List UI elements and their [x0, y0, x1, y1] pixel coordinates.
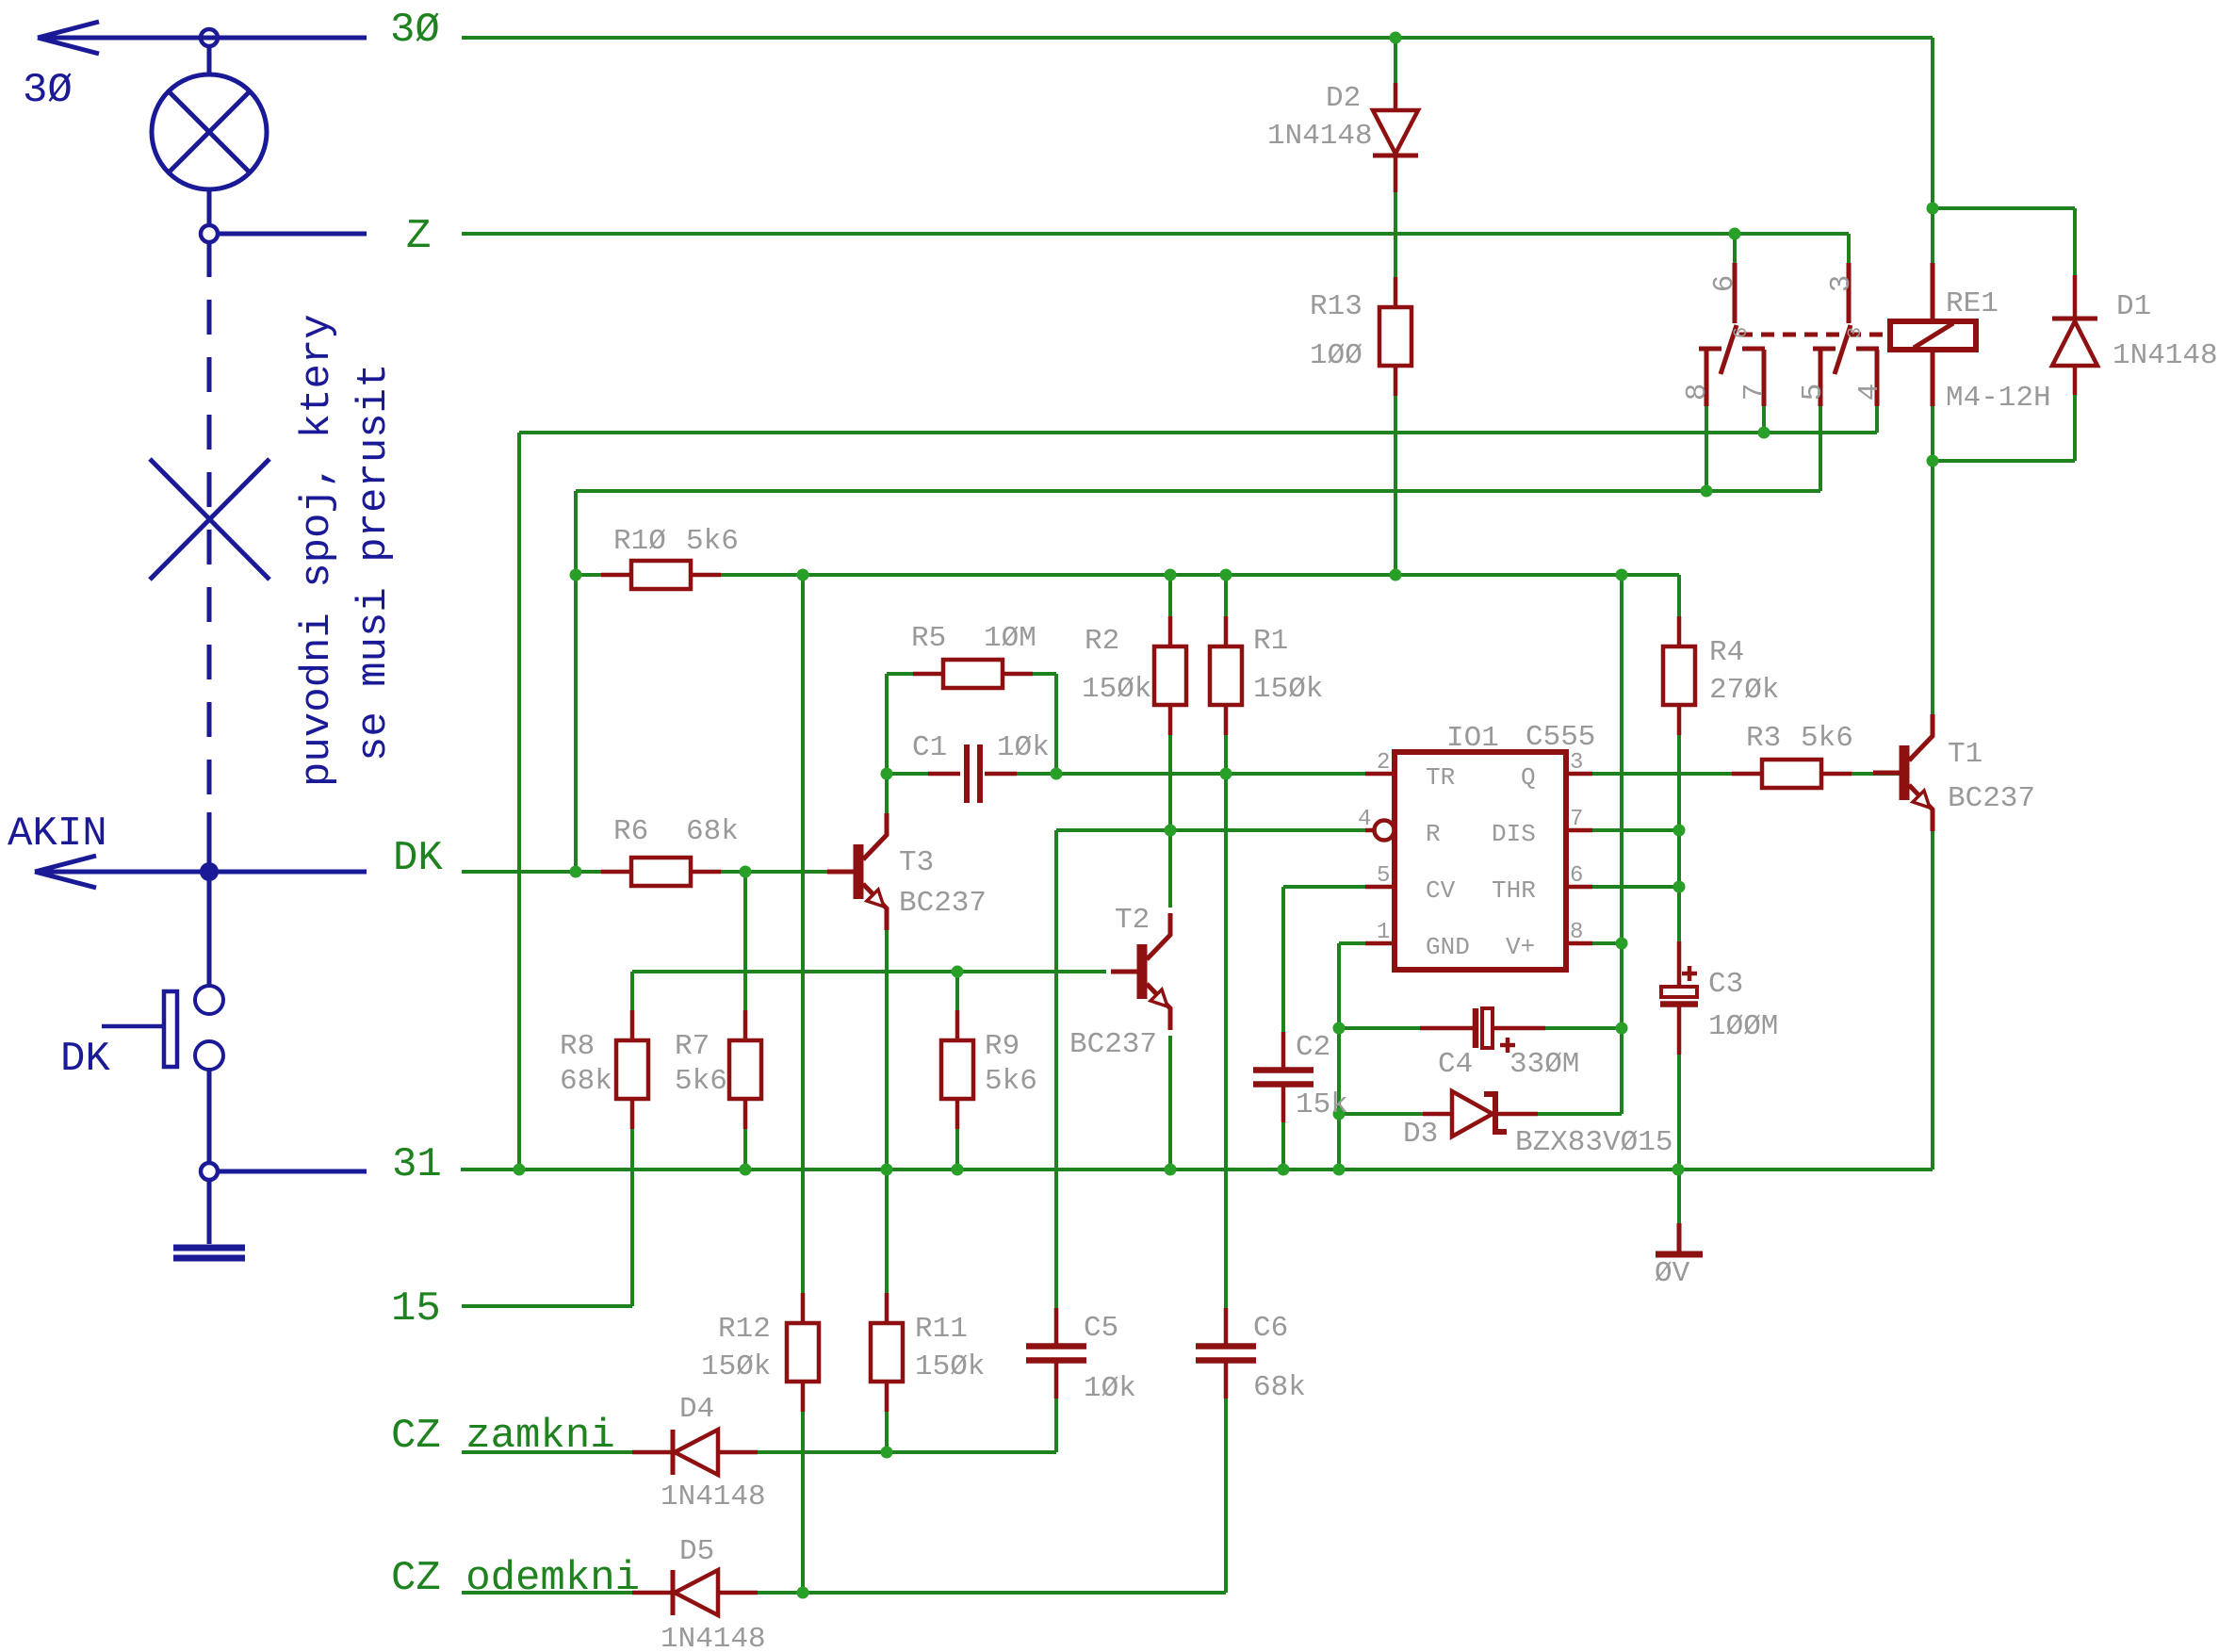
svg-text:1N4148: 1N4148: [1267, 120, 1373, 153]
svg-text:puvodni spoj, ktery: puvodni spoj, ktery: [294, 314, 341, 787]
wire relay pin4 drop: [1875, 401, 1879, 433]
svg-text:3: 3: [1570, 750, 1583, 776]
wire navy down to ground: [207, 1180, 212, 1244]
switch DK (push button): [102, 986, 223, 1070]
resistor R11 150k: [871, 1293, 985, 1412]
wire R1 branch vertical down to C6: [1224, 575, 1228, 1593]
svg-text:AKIN: AKIN: [8, 810, 107, 858]
lamp (circle with X): [152, 74, 267, 189]
svg-text:1Øk: 1Øk: [997, 731, 1050, 764]
wire net 30 top horizontal: [462, 36, 1933, 40]
resistor R5 10M: [911, 622, 1036, 688]
junction TR / R1: [1220, 768, 1232, 780]
svg-text:3: 3: [1845, 327, 1867, 338]
wire V+ row horizontal pin8: [1592, 941, 1622, 945]
wire R4 branch vertical x1782: [1677, 575, 1681, 1223]
svg-text:DIS: DIS: [1492, 820, 1536, 848]
wire net Z horizontal: [462, 232, 1849, 236]
svg-text:T3: T3: [899, 846, 934, 879]
wire D3 row horizontal: [1339, 1112, 1622, 1116]
svg-text:DK: DK: [393, 835, 443, 882]
relay contact B (pins 3/5/4): [1813, 263, 1879, 406]
junction pin7 on y459 wire: [1758, 427, 1770, 439]
svg-text:1N4148: 1N4148: [661, 1480, 766, 1513]
wire net DK horizontal: [462, 870, 829, 874]
wire R5/C1 right vertical: [1054, 674, 1058, 774]
svg-text:R1: R1: [1253, 625, 1288, 658]
svg-text:T1: T1: [1948, 738, 1982, 771]
wire T2 emitter vertical: [1168, 1036, 1172, 1169]
svg-text:3: 3: [1825, 275, 1858, 293]
resistor R4 270k: [1663, 616, 1779, 735]
arrow head 30 (left): [38, 22, 99, 54]
wire navy DK down to switch: [207, 872, 212, 986]
wire net 31 rail horizontal: [461, 1168, 1933, 1171]
junction TR / T3 collector / C1 left: [881, 768, 893, 780]
wire DIS row horizontal: [1592, 828, 1679, 832]
junction rail / R1: [1220, 569, 1232, 581]
junction 31 rail / pins7-4 branch: [514, 1164, 526, 1176]
svg-text:4: 4: [1358, 807, 1371, 832]
transistor T3 BC237: [827, 813, 987, 930]
svg-text:R13: R13: [1310, 290, 1362, 323]
wire D2/R13 vertical to V+ rail: [1394, 192, 1397, 575]
svg-text:7: 7: [1738, 384, 1771, 401]
wire GND row horizontal to pin1: [1339, 941, 1365, 945]
svg-text:C6: C6: [1253, 1312, 1288, 1345]
svg-text:68k: 68k: [686, 815, 739, 848]
junction 31 rail / C2: [1278, 1164, 1290, 1176]
wire net 30 right vertical down to relay coil: [1931, 38, 1934, 208]
svg-text:Q: Q: [1521, 763, 1536, 792]
svg-text:C2: C2: [1296, 1031, 1330, 1064]
diode D5 1N4148 (pointing left): [632, 1535, 766, 1652]
node junction ring 31: [201, 1163, 218, 1180]
junction rail / R2: [1165, 569, 1177, 581]
wire relay pin6 stub from Z: [1733, 234, 1737, 283]
junction DK / pins8-5 branch: [570, 866, 582, 878]
svg-text:R2: R2: [1085, 625, 1119, 658]
svg-text:R3: R3: [1746, 722, 1781, 755]
wire T1 collector vertical from relay: [1931, 461, 1934, 714]
svg-text:R6: R6: [613, 815, 648, 848]
svg-text:R8: R8: [560, 1030, 595, 1063]
svg-text:D2: D2: [1326, 82, 1361, 115]
node junction dot DK (navy): [200, 862, 219, 881]
junction D5 row / R12 bottom: [797, 1587, 809, 1599]
junction rail / V+ branch: [1616, 569, 1628, 581]
junction T2 base / R9 top: [952, 966, 964, 978]
IC pin 8 V+: [1506, 920, 1592, 961]
wire R5 top horizontal: [887, 672, 1056, 676]
junction 31 rail / R7: [740, 1164, 752, 1176]
svg-text:R5: R5: [911, 622, 946, 655]
svg-text:GND: GND: [1426, 933, 1470, 961]
svg-text:6: 6: [1731, 327, 1753, 338]
wire CV row horizontal to pin5: [1283, 885, 1365, 889]
svg-text:C4: C4: [1438, 1048, 1473, 1081]
junction pin8 on y521 wire: [1701, 485, 1713, 498]
capacitor C4 330M (polarized horizontal): [1420, 1005, 1579, 1081]
IC pin 7 DIS: [1492, 807, 1592, 848]
svg-text:3Ø: 3Ø: [390, 7, 440, 54]
arrow head AKIN: [35, 856, 96, 888]
wire R row corner down to C5: [1054, 830, 1058, 1452]
svg-text:5k6: 5k6: [985, 1065, 1037, 1098]
svg-text:R11: R11: [915, 1313, 968, 1346]
resistor R6 68k: [601, 815, 739, 886]
svg-text:8: 8: [1681, 384, 1714, 401]
wire TR row horizontal to pin2: [887, 772, 1365, 776]
svg-text:31: 31: [392, 1141, 442, 1188]
svg-text:6: 6: [1570, 863, 1583, 889]
svg-text:33ØM: 33ØM: [1509, 1048, 1579, 1081]
svg-text:8: 8: [1570, 920, 1583, 945]
junction 31 rail / GND line: [1333, 1164, 1346, 1176]
wire relay pin7 drop: [1762, 401, 1766, 433]
wire T3 collector vertical: [885, 674, 889, 813]
diode D3 BZX83V015 zener (pointing right): [1403, 1091, 1672, 1159]
svg-text:DK: DK: [60, 1036, 110, 1083]
svg-text:THR: THR: [1492, 876, 1536, 905]
svg-text:7: 7: [1570, 807, 1583, 832]
svg-text:1ØØM: 1ØØM: [1708, 1010, 1778, 1043]
junction relay coil bottom / D1 / T1 collector: [1927, 455, 1939, 467]
relay contact A (pins 6/8/7): [1699, 263, 1765, 406]
wire navy lamp bottom lead: [207, 189, 212, 225]
svg-text:R7: R7: [675, 1030, 710, 1063]
svg-text:R4: R4: [1709, 636, 1744, 669]
junction C4 left / GND line: [1333, 1022, 1346, 1035]
wire V+ rail drop to R12 and down to CZ-odemkni: [801, 575, 805, 1593]
node junction ring 30/lamp: [201, 29, 218, 46]
wire THR row horizontal: [1592, 885, 1679, 889]
resistor R7 5k6: [675, 1010, 761, 1129]
svg-text:C1: C1: [912, 731, 947, 764]
wire relay pin8 drop: [1705, 401, 1708, 491]
svg-text:C5: C5: [1084, 1312, 1118, 1345]
svg-text:6: 6: [1708, 275, 1741, 293]
wire relay coil bottom to D1 bottom: [1933, 459, 2075, 463]
junction D4 row / R11 bottom: [881, 1447, 893, 1459]
junction R row / R2 / T2 collector: [1165, 825, 1177, 837]
wire 0V drop below rail: [1677, 1169, 1681, 1223]
resistor R3 5k6: [1732, 722, 1853, 788]
junction relay coil top / D1: [1927, 203, 1939, 215]
svg-text:1ØØ: 1ØØ: [1310, 339, 1362, 372]
svg-text:1N4148: 1N4148: [2113, 339, 2218, 372]
svg-text:D4: D4: [679, 1393, 714, 1426]
svg-text:D3: D3: [1403, 1118, 1438, 1151]
svg-text:D5: D5: [679, 1535, 714, 1568]
svg-text:68k: 68k: [1253, 1371, 1306, 1404]
wire T3 emitter / R11 vertical: [885, 926, 889, 1452]
svg-text:2: 2: [1377, 750, 1390, 776]
resistor R1 150k: [1210, 616, 1323, 735]
svg-text:15: 15: [391, 1285, 441, 1333]
wire net 15 horizontal: [462, 1304, 632, 1308]
junction rail / R13: [1390, 569, 1402, 581]
svg-text:se musi prerusit: se musi prerusit: [351, 364, 398, 761]
wire relay pin3 corner drop from Z: [1847, 234, 1851, 283]
wire relay coil top to D1 top: [1933, 206, 2075, 210]
op-amp/timer IC IO1 C555: [1395, 721, 1595, 970]
junction 31 rail / T2 emitter: [1165, 1164, 1177, 1176]
wire V+ rail horizontal y610: [576, 573, 1679, 577]
IC pin 1 GND: [1365, 920, 1470, 961]
wire net pins7-4 left vertical to 31 rail: [517, 433, 521, 1169]
wire navy solid above DK junction: [207, 812, 212, 872]
junction DK / R6 / R7: [740, 866, 752, 878]
wire T1 emitter vertical to rail: [1931, 831, 1934, 1169]
wire Q row horizontal pin3 to T1 base: [1592, 772, 1900, 776]
svg-text:68k: 68k: [560, 1065, 612, 1098]
svg-text:5k6: 5k6: [1801, 722, 1853, 755]
wire R8 vertical to 15 wire: [630, 1127, 634, 1306]
junction 31 rail / T3 emitter / R11: [881, 1164, 893, 1176]
wire D2 anode drop from 30 net: [1394, 38, 1397, 83]
wire net pins7-4 horizontal y459: [519, 431, 1877, 434]
capacitor C5 10k: [1022, 1308, 1136, 1405]
junction rail / pins8-5 branch: [570, 569, 582, 581]
wire GND corner vertical down to 31 rail: [1337, 943, 1341, 1169]
diode D4 1N4148 (pointing left): [632, 1393, 766, 1513]
junction THR / R4 branch: [1673, 881, 1686, 893]
capacitor C1 10k (horizontal): [912, 731, 1050, 807]
relay linkage dashed line: [1739, 333, 1888, 337]
wire rail to V+ pin vertical x1721: [1620, 575, 1623, 1114]
svg-text:15Øk: 15Øk: [915, 1350, 985, 1383]
svg-text:R: R: [1426, 820, 1441, 848]
svg-text:V+: V+: [1506, 933, 1535, 961]
svg-text:1ØM: 1ØM: [984, 622, 1036, 655]
wire D1 branch vertical: [2073, 208, 2077, 461]
svg-text:C3: C3: [1708, 968, 1743, 1001]
svg-text:BC237: BC237: [1948, 782, 2035, 815]
relay RE1 coil M4-12H: [1890, 263, 2051, 415]
wire net pins8-5 corner vertical to DK: [574, 491, 578, 872]
junction V+ pin8: [1616, 938, 1628, 950]
wire R9 vertical: [955, 972, 959, 1169]
svg-text:15k: 15k: [1296, 1088, 1348, 1121]
junction TR / C1 right / R5: [1051, 768, 1063, 780]
resistor R9 5k6: [941, 1010, 1037, 1129]
wire net CZ-odemkni / D5 row: [462, 1591, 1226, 1595]
wire C4 row horizontal: [1339, 1026, 1622, 1030]
cut mark X symbol: [150, 459, 269, 580]
wire R2 branch vertical: [1168, 575, 1172, 908]
wire navy 31 stub horizontal: [218, 1169, 367, 1174]
capacitor C2 15k: [1249, 1031, 1348, 1122]
svg-text:27Øk: 27Øk: [1709, 674, 1779, 707]
transistor T2 BC237: [1069, 904, 1170, 1061]
svg-text:15Øk: 15Øk: [701, 1350, 771, 1383]
junction C4 right / V+ line: [1616, 1022, 1628, 1035]
wire navy dashed (connection to be cut): [207, 242, 212, 812]
node junction ring Z: [201, 225, 218, 242]
junction 31 rail / C3 / 0V: [1672, 1164, 1685, 1176]
svg-text:BZX83VØ15: BZX83VØ15: [1515, 1126, 1672, 1159]
svg-text:1Øk: 1Øk: [1084, 1372, 1136, 1405]
IC pin 2 TR: [1365, 750, 1455, 792]
svg-text:15Øk: 15Øk: [1253, 673, 1323, 706]
IC pin 4 R (with inversion bubble): [1358, 807, 1441, 848]
wire relay pin5 drop: [1819, 401, 1822, 491]
resistor R12 150k: [701, 1293, 819, 1412]
svg-text:CV: CV: [1426, 876, 1456, 905]
svg-text:IO1: IO1: [1446, 722, 1499, 755]
diode D2 1N4148 (pointing down): [1267, 82, 1418, 192]
junction 30 net / D2: [1390, 32, 1402, 44]
wire navy arrow 30 horizontal: [38, 36, 367, 41]
svg-text:5: 5: [1377, 863, 1390, 889]
wire CV corner down through C2: [1281, 887, 1285, 1169]
wire relay coil vertical: [1931, 208, 1934, 461]
svg-text:CZ odemkni: CZ odemkni: [391, 1555, 640, 1602]
svg-text:R12: R12: [718, 1313, 771, 1346]
resistor R2 150k: [1082, 616, 1186, 735]
svg-text:5k6: 5k6: [686, 525, 739, 558]
resistor R10 5k6: [601, 525, 739, 589]
capacitor C3 100M (polarized vertical): [1656, 941, 1778, 1055]
wire navy lamp top lead: [207, 46, 212, 75]
resistor R13 100: [1310, 277, 1411, 396]
svg-text:T2: T2: [1115, 904, 1150, 937]
wire navy arrow AKIN horizontal: [35, 870, 367, 875]
capacitor C6 68k: [1192, 1308, 1306, 1404]
resistor R8 68k: [560, 1010, 648, 1129]
svg-text:5: 5: [1797, 384, 1830, 401]
junction DIS / R4 branch: [1673, 825, 1686, 837]
wire net pins8-5 horizontal y521: [576, 489, 1820, 493]
wire net CZ-zamkni / D4 row: [462, 1450, 1056, 1454]
svg-text:D1: D1: [2116, 290, 2151, 323]
junction 31 rail / R9: [952, 1164, 964, 1176]
svg-text:4: 4: [1853, 384, 1886, 401]
junction Z / relay pin6: [1729, 228, 1741, 240]
wire T2 base row horizontal: [632, 970, 1106, 973]
svg-text:R9: R9: [985, 1030, 1020, 1063]
wire T2 base corner down to R8: [630, 972, 634, 1012]
svg-text:CZ zamkni: CZ zamkni: [391, 1413, 615, 1460]
ground 0V symbol: [1655, 1223, 1703, 1290]
diode D1 1N4148 (pointing up): [2052, 275, 2218, 395]
IC pin 3 Q: [1521, 750, 1592, 792]
wire R row horizontal to pin4: [1056, 828, 1365, 832]
svg-text:TR: TR: [1426, 763, 1455, 792]
wire navy Z stub horizontal: [218, 232, 367, 237]
svg-text:1: 1: [1377, 920, 1390, 945]
svg-text:Z: Z: [406, 213, 431, 260]
svg-text:BC237: BC237: [1069, 1028, 1157, 1061]
svg-text:1N4148: 1N4148: [661, 1623, 766, 1652]
svg-text:5k6: 5k6: [675, 1065, 727, 1098]
svg-text:M4-12H: M4-12H: [1946, 382, 2051, 415]
svg-text:RE1: RE1: [1946, 287, 1999, 320]
svg-text:C555: C555: [1526, 721, 1595, 754]
svg-text:ØV: ØV: [1655, 1257, 1690, 1290]
IC pin 5 CV: [1365, 863, 1456, 905]
svg-text:BC237: BC237: [899, 887, 987, 920]
junction D3 left / GND line: [1333, 1108, 1346, 1120]
transistor T1 BC237: [1873, 714, 2035, 831]
IC pin 6 THR: [1492, 863, 1592, 905]
svg-text:15Øk: 15Øk: [1082, 673, 1151, 706]
wire navy switch to 31 junction: [207, 1070, 212, 1163]
svg-text:R1Ø: R1Ø: [613, 525, 666, 558]
svg-text:3Ø: 3Ø: [23, 67, 73, 114]
ground symbol (chassis): [173, 1248, 245, 1258]
junction rail / R12 branch: [797, 569, 809, 581]
wire R7 vertical from DK to rail: [743, 872, 747, 1169]
